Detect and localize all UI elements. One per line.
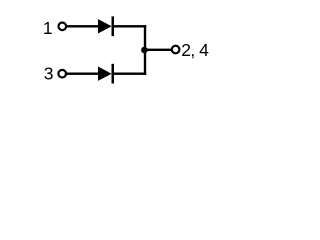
diode D2 cathode bar (112, 64, 115, 84)
wire node to terminal 2,4 (144, 49, 171, 51)
wire vertical top corner to bottom corner through node (144, 25, 146, 75)
svg-text:1: 1 (43, 18, 53, 38)
terminal pins 2,4 (172, 46, 180, 54)
svg-text:2, 4: 2, 4 (181, 40, 209, 60)
wire pin3 to diode D2 anode (67, 73, 98, 75)
terminal pin 3 (58, 70, 66, 78)
wire pin1 to diode D1 anode (67, 25, 98, 27)
wire D1 cathode to top corner (114, 25, 146, 27)
diode D2 triangle (98, 67, 112, 81)
junction node dot (141, 47, 148, 54)
diode D1 triangle (98, 19, 112, 33)
terminal pin 1 (59, 23, 67, 31)
diode D1 cathode bar (112, 16, 115, 36)
wire D2 cathode to bottom corner (114, 73, 146, 75)
svg-text:3: 3 (44, 64, 54, 84)
